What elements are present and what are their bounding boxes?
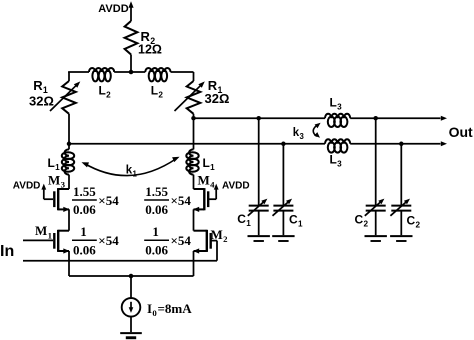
inductor L2 (left) bbox=[89, 68, 114, 81]
svg-text:AVDD: AVDD bbox=[13, 181, 41, 192]
svg-text:×54: ×54 bbox=[171, 233, 192, 248]
label L2 (right) bbox=[151, 84, 164, 100]
node right output (Out+ tap) bbox=[191, 116, 196, 121]
wire tail bbox=[69, 275, 194, 277]
wire R1-left to node bbox=[68, 114, 70, 144]
transistor M3 bbox=[54, 188, 69, 212]
wire rail to R1-right bbox=[193, 72, 195, 81]
label R1 value 32Ω (left) bbox=[29, 94, 54, 109]
svg-text:1: 1 bbox=[298, 220, 303, 229]
svg-text:L: L bbox=[99, 84, 106, 98]
svg-text:2: 2 bbox=[106, 91, 111, 100]
svg-text:3: 3 bbox=[337, 103, 342, 112]
wire Out- line bbox=[69, 143, 441, 145]
transistor M1 bbox=[54, 230, 69, 254]
node tail bbox=[129, 274, 134, 279]
power AVDD (M3 gate) bbox=[13, 181, 41, 192]
label L2 (left) bbox=[99, 84, 112, 100]
label M4 bbox=[198, 173, 216, 190]
svg-text:0.06: 0.06 bbox=[73, 242, 96, 257]
svg-text:0.06: 0.06 bbox=[145, 202, 168, 217]
coupling k3 arrow bbox=[313, 123, 320, 138]
node center (L2 junction) bbox=[129, 70, 134, 75]
wire M4 source to M2 drain bbox=[193, 209, 195, 230]
label L1 (right) bbox=[203, 156, 216, 172]
wire L2-left to center node bbox=[114, 71, 131, 73]
inductor L3 (top) bbox=[325, 114, 350, 127]
svg-text:M: M bbox=[35, 223, 47, 238]
wire M1 source down bbox=[68, 251, 70, 276]
capacitor C2 (left, variable) bbox=[365, 118, 387, 241]
svg-text:1: 1 bbox=[48, 230, 52, 240]
svg-text:L: L bbox=[330, 153, 337, 167]
svg-text:C: C bbox=[289, 213, 298, 227]
wire Out+ line bbox=[194, 117, 441, 119]
wire tail to current source bbox=[130, 276, 132, 298]
svg-text:4: 4 bbox=[210, 180, 215, 190]
label I0 value bbox=[147, 301, 192, 318]
label M1 size 1/0.06 x54 bbox=[72, 224, 119, 257]
capacitor C1 (right, variable) bbox=[272, 144, 294, 241]
power AVDD (M4 gate) bbox=[222, 181, 250, 192]
AVDD arrow (M4) bbox=[214, 184, 219, 200]
svg-text:2: 2 bbox=[158, 91, 163, 100]
wire top rail right bbox=[171, 71, 194, 73]
label L3 (top) bbox=[330, 96, 343, 112]
transistor M2 bbox=[193, 230, 211, 254]
svg-text:L: L bbox=[330, 96, 337, 110]
svg-text:M: M bbox=[48, 173, 60, 188]
svg-text:×54: ×54 bbox=[171, 193, 192, 208]
capacitor C1 (left, variable) bbox=[248, 118, 270, 241]
svg-text:1: 1 bbox=[55, 163, 60, 172]
svg-text:2: 2 bbox=[223, 234, 228, 244]
label C1 (right) bbox=[289, 213, 303, 229]
arrow Out+ bbox=[441, 116, 447, 121]
svg-text:2: 2 bbox=[416, 221, 421, 230]
wire M3 source to M1 drain bbox=[68, 209, 70, 230]
svg-text:M: M bbox=[198, 173, 210, 188]
svg-text:1: 1 bbox=[210, 163, 215, 172]
current source I0 bbox=[122, 298, 141, 317]
svg-text:×54: ×54 bbox=[98, 233, 119, 248]
wire node to L1-left bbox=[68, 144, 70, 150]
label C2 (right) bbox=[407, 214, 421, 230]
svg-text:R: R bbox=[33, 78, 43, 93]
inductor L3 (bottom) bbox=[325, 139, 350, 152]
wire M2 source down bbox=[193, 251, 195, 276]
resistor R2 bbox=[125, 21, 138, 55]
wire current source to ground bbox=[130, 317, 132, 333]
label R2 bbox=[141, 29, 156, 46]
label C2 (left) bbox=[355, 213, 369, 229]
svg-text:32Ω: 32Ω bbox=[205, 91, 230, 106]
port In bbox=[0, 243, 14, 260]
label k1 bbox=[126, 165, 138, 179]
svg-text:1: 1 bbox=[80, 224, 87, 239]
svg-text:0.06: 0.06 bbox=[73, 202, 96, 217]
node left output (Out- tap) bbox=[67, 142, 72, 147]
inductor L2 (right) bbox=[145, 68, 170, 81]
wire L1-left to M3 drain bbox=[68, 175, 70, 189]
label C1 (left) bbox=[237, 212, 251, 228]
svg-text:C: C bbox=[407, 214, 416, 228]
svg-text:32Ω: 32Ω bbox=[29, 94, 54, 109]
svg-text:3: 3 bbox=[337, 160, 342, 169]
label M1 bbox=[35, 223, 52, 240]
capacitor C2 (right, variable) bbox=[390, 144, 412, 241]
node C1-left on Out+ line bbox=[256, 116, 261, 121]
label k3 bbox=[293, 127, 305, 141]
svg-text:1: 1 bbox=[133, 170, 138, 179]
svg-text:AVDD: AVDD bbox=[222, 181, 250, 192]
wire top rail left bbox=[68, 71, 89, 73]
svg-text:3: 3 bbox=[61, 180, 66, 190]
wire center node to L2-right bbox=[131, 71, 145, 73]
resistor R1 (left, variable) bbox=[50, 81, 80, 114]
wire In to M1 gate bbox=[23, 239, 53, 241]
svg-text:C: C bbox=[237, 212, 246, 226]
power AVDD (top) bbox=[98, 3, 128, 15]
node C2-left on Out+ line bbox=[373, 116, 378, 121]
label R1 (right) bbox=[208, 78, 223, 95]
svg-text:M: M bbox=[211, 227, 223, 242]
svg-text:1: 1 bbox=[152, 224, 159, 239]
wire node to L1-right bbox=[193, 118, 195, 149]
svg-text:L: L bbox=[151, 84, 158, 98]
svg-text:Out: Out bbox=[449, 124, 473, 140]
svg-text:1: 1 bbox=[246, 219, 251, 228]
svg-text:×54: ×54 bbox=[98, 193, 119, 208]
svg-text:In: In bbox=[0, 243, 14, 260]
ground (tail) bbox=[120, 333, 142, 339]
arrow Out- bbox=[441, 141, 447, 146]
svg-text:1.55: 1.55 bbox=[73, 184, 96, 199]
AVDD arrow (top) bbox=[128, 1, 133, 15]
inductor L1 (right) bbox=[186, 149, 198, 174]
svg-text:L: L bbox=[203, 156, 210, 170]
wire M2 gate to In bbox=[211, 241, 217, 261]
label R1 value 32Ω (right) bbox=[205, 91, 230, 106]
svg-text:3: 3 bbox=[300, 132, 305, 141]
wire M4 gate to AVDD bbox=[209, 198, 217, 200]
svg-text:I: I bbox=[147, 301, 152, 316]
svg-text:0.06: 0.06 bbox=[145, 242, 168, 257]
label L1 (left) bbox=[48, 156, 61, 172]
wire AVDD to M3 gate bbox=[44, 198, 53, 200]
coupling k1 arrow bbox=[82, 157, 180, 176]
label M2 size 1/0.06 x54 bbox=[144, 224, 191, 257]
label M2 bbox=[211, 227, 229, 244]
transistor M4 bbox=[193, 188, 208, 212]
svg-text:=8mA: =8mA bbox=[158, 301, 193, 316]
svg-text:L: L bbox=[48, 156, 55, 170]
label M4 size 1.55/0.06 x54 bbox=[144, 184, 191, 217]
label M3 bbox=[48, 173, 66, 190]
svg-text:12Ω: 12Ω bbox=[138, 42, 162, 56]
resistor R1 (right, variable) bbox=[175, 81, 205, 114]
label L3 (bottom) bbox=[330, 153, 343, 169]
svg-text:1.55: 1.55 bbox=[145, 184, 168, 199]
label R2 value 12Ω bbox=[138, 42, 162, 56]
svg-text:AVDD: AVDD bbox=[98, 3, 128, 15]
AVDD arrow (M3) bbox=[41, 184, 46, 200]
inductor L1 (left) bbox=[62, 149, 74, 174]
wire AVDD to R2 bbox=[130, 16, 132, 22]
wire L1-right to M4 drain bbox=[193, 175, 195, 189]
wire In to M2 gate bbox=[23, 260, 217, 262]
port Out bbox=[449, 124, 473, 140]
wire R1-right to node bbox=[193, 114, 195, 118]
node C2-right on Out- line bbox=[399, 142, 404, 147]
node C1-right on Out- line bbox=[281, 142, 286, 147]
svg-text:C: C bbox=[355, 213, 364, 227]
label M3 size 1.55/0.06 x54 bbox=[72, 184, 119, 217]
svg-text:2: 2 bbox=[364, 220, 369, 229]
wire R2 to center node bbox=[130, 55, 132, 73]
label R1 (left) bbox=[33, 78, 48, 95]
wire rail to R1-left bbox=[68, 72, 70, 81]
